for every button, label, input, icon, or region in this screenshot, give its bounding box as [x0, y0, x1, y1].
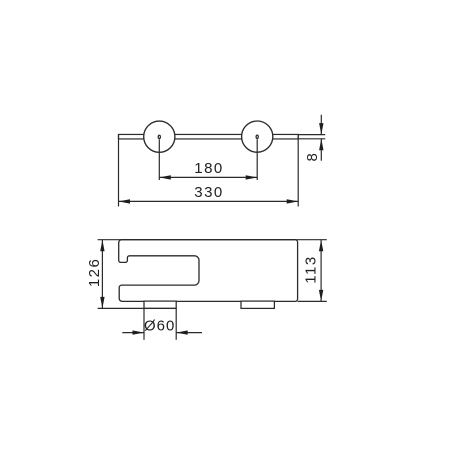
center dot left [158, 135, 160, 138]
dimension line 113 [320, 240, 322, 301]
arrowhead 126 top [100, 240, 104, 252]
rosette circle right [242, 121, 273, 152]
dimension line 126 [101, 240, 103, 309]
extension line: bar bottom edge to 8-dim [298, 138, 325, 140]
arrowhead 113 bottom [319, 290, 323, 302]
svg-text:126: 126 [86, 258, 103, 288]
extension line: body bottom to 113 [298, 300, 327, 302]
dimension line 180 [159, 176, 257, 178]
extension line Ø60 left [143, 308, 145, 339]
center extension line right [256, 139, 258, 180]
extension line: body top edge (126 and 113) [98, 239, 327, 241]
extension line: bar top edge to 8-dim [298, 134, 325, 136]
bracket body outline (side view) [119, 240, 298, 302]
arrowhead 8 top [319, 123, 323, 135]
arrowhead 330 left [119, 199, 131, 203]
arrowhead Ø60 left [133, 330, 145, 334]
right foot (escutcheon, side view) [241, 301, 274, 308]
center extension line left [158, 139, 160, 180]
extension line 330 left [118, 135, 120, 207]
left foot (escutcheon, side view) [144, 301, 176, 308]
arrowhead 180 left [159, 175, 171, 179]
arrowhead 180 right [246, 175, 258, 179]
svg-text:180: 180 [194, 160, 224, 177]
svg-text:113: 113 [303, 255, 320, 283]
arrowhead 126 bottom [100, 297, 104, 309]
arrowhead Ø60 right [176, 330, 188, 334]
extension line Ø60 right [175, 308, 177, 339]
arrowhead 8 bottom [319, 139, 323, 151]
dimension line 8 upper segment [320, 115, 322, 135]
dimension line Ø60 right segment [176, 332, 202, 334]
dimension line 8 lower segment [320, 139, 322, 161]
rosette circle left [144, 121, 175, 152]
wall bar (top view) [119, 134, 299, 139]
center dot right [256, 135, 258, 138]
dimension line 330 [119, 200, 299, 202]
arrowhead 330 right [287, 199, 299, 203]
dimension line Ø60 left segment [122, 332, 144, 334]
extension line 330 right [297, 135, 299, 207]
svg-text:330: 330 [194, 184, 224, 201]
arrowhead 113 top [319, 240, 323, 252]
svg-text:8: 8 [304, 153, 321, 161]
svg-text:Ø60: Ø60 [144, 317, 175, 334]
extension line: foot bottom to 126 [98, 307, 177, 309]
